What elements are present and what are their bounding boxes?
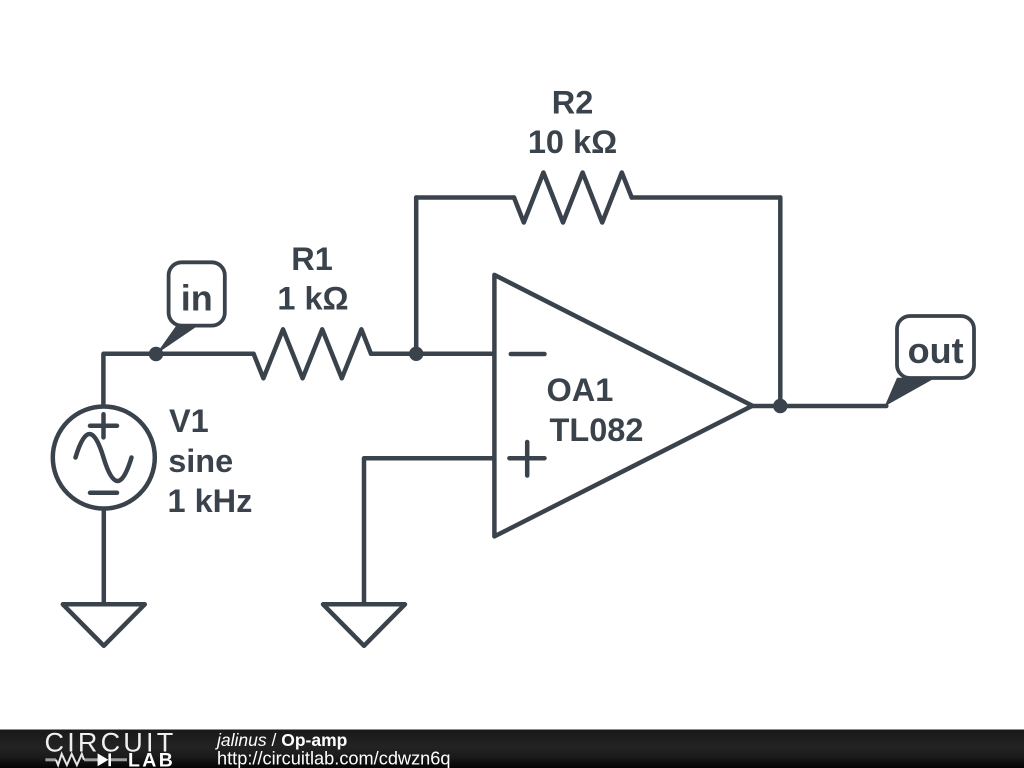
svg-text:10 kΩ: 10 kΩ bbox=[528, 124, 617, 160]
svg-text:V1: V1 bbox=[169, 403, 209, 439]
svg-text:out: out bbox=[908, 330, 964, 371]
op-amp minus input symbol bbox=[511, 352, 545, 357]
V1 minus mark bbox=[90, 491, 117, 496]
ground (op-amp plus input) bbox=[323, 604, 405, 646]
footer logo resistor bbox=[56, 754, 84, 765]
node at output bbox=[773, 399, 787, 413]
svg-text:http://circuitlab.com/cdwzn6q: http://circuitlab.com/cdwzn6q bbox=[217, 749, 451, 768]
wire feedback vertical right bbox=[778, 198, 783, 407]
svg-text:1 kHz: 1 kHz bbox=[168, 483, 253, 519]
wire V1 bottom to ground bbox=[102, 503, 107, 604]
node "in" junction dot bbox=[149, 347, 163, 361]
svg-text:sine: sine bbox=[168, 443, 233, 479]
wire output bbox=[752, 404, 886, 409]
wire feedback top right bbox=[632, 195, 781, 200]
node flag "out" bbox=[885, 316, 974, 406]
op-amp OA1 bbox=[494, 275, 752, 537]
V1 plus mark bbox=[90, 414, 117, 437]
voltage source V1 bbox=[53, 403, 253, 519]
V1 sine mark bbox=[76, 434, 132, 481]
svg-text:1 kΩ: 1 kΩ bbox=[277, 280, 348, 316]
flag tail bbox=[156, 325, 198, 354]
ground (V1) bbox=[63, 604, 145, 646]
svg-text:in: in bbox=[181, 278, 213, 319]
op-amp plus input symbol bbox=[509, 442, 544, 476]
svg-text:TL082: TL082 bbox=[550, 412, 644, 448]
flag tail bbox=[885, 378, 936, 407]
svg-text:jalinus / Op-amp: jalinus / Op-amp bbox=[215, 730, 347, 750]
footer logo diode bar bbox=[108, 753, 111, 766]
wire op-amp plus input stub bbox=[364, 458, 494, 604]
wire feedback vertical left bbox=[414, 198, 419, 354]
footer logo diode bbox=[98, 753, 109, 766]
wire V1 top to input node bbox=[103, 354, 253, 412]
resistor R1 bbox=[254, 329, 371, 378]
node flag "in" bbox=[156, 262, 225, 354]
wire feedback top left bbox=[416, 195, 514, 200]
svg-text:R2: R2 bbox=[552, 85, 594, 121]
svg-text:LAB: LAB bbox=[128, 750, 175, 768]
footer bar bbox=[0, 730, 1024, 768]
junction node at R1/feedback/op-amp bbox=[409, 347, 423, 361]
resistor R2 bbox=[514, 173, 632, 223]
footer logo wire bbox=[45, 758, 127, 761]
wire R1 right to op-amp minus input bbox=[371, 352, 494, 357]
svg-text:R1: R1 bbox=[291, 241, 333, 277]
svg-text:OA1: OA1 bbox=[547, 372, 614, 408]
